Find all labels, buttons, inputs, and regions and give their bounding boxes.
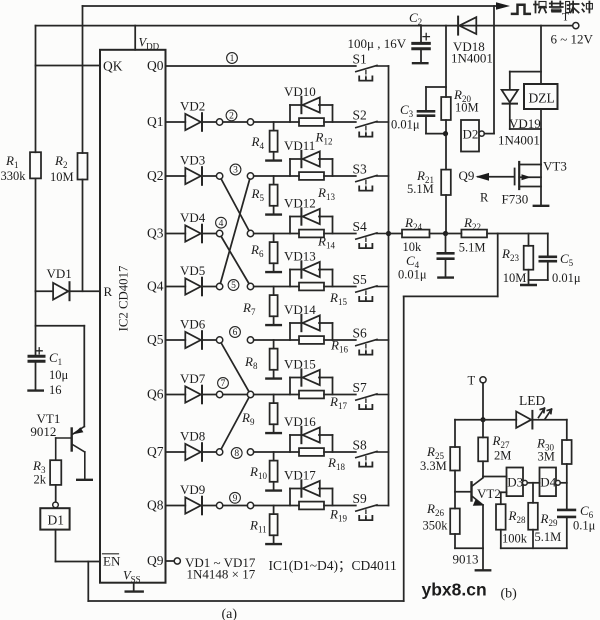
resistor R1: [30, 152, 41, 178]
svg-text:100k: 100k: [502, 532, 528, 546]
wire R25 to base node: [454, 471, 456, 509]
svg-text:Q4: Q4: [147, 279, 164, 294]
diode VD19: [510, 71, 541, 73]
gate D3 output bubble: [523, 480, 528, 485]
svg-text:VD12: VD12: [284, 195, 316, 210]
resistor R6 (shunt): [273, 234, 275, 243]
svg-text:350k: 350k: [423, 519, 449, 533]
ground under C2: [413, 62, 427, 64]
diode VD5: [185, 278, 201, 294]
svg-text:3.3M: 3.3M: [420, 459, 447, 473]
svg-text:R: R: [104, 284, 113, 299]
resistor R9 (shunt): [273, 395, 275, 404]
wire emitter down: [482, 505, 484, 570]
svg-text:Q5: Q5: [147, 332, 164, 347]
wire c2 row2 to network: [254, 175, 299, 177]
resistor R4 (shunt): [273, 122, 275, 131]
node 3 circled: [230, 164, 241, 175]
svg-text:DZL: DZL: [529, 91, 555, 106]
svg-text:100μ , 16V: 100μ , 16V: [348, 36, 407, 51]
svg-text:(b): (b): [501, 587, 518, 602]
switch S8: [356, 451, 377, 457]
wire R1 bottom to C1: [35, 291, 37, 355]
wire DZL to drain: [540, 109, 542, 165]
svg-text:Q1: Q1: [147, 114, 164, 129]
capacitor C1: [29, 355, 44, 358]
wire R26 bottom: [454, 534, 456, 548]
svg-text:0.1μ: 0.1μ: [573, 519, 596, 533]
svg-text:330k: 330k: [1, 169, 27, 183]
switch S6: [356, 339, 377, 345]
svg-text:S7: S7: [353, 380, 368, 395]
node 9 circled: [230, 492, 241, 503]
wire Q3 pin to VD4: [166, 233, 186, 235]
svg-text:S9: S9: [353, 491, 368, 506]
svg-text:Q0: Q0: [147, 58, 164, 73]
diode VD4: [185, 225, 201, 241]
mosfet VT3: [518, 162, 520, 189]
Q9 pin circle: [174, 558, 180, 564]
patch contact c2 row5: [247, 337, 253, 343]
diode VD6: [185, 332, 201, 348]
svg-text:D4: D4: [540, 475, 556, 490]
wire EN bottom rail: [87, 562, 89, 602]
svg-text:S8: S8: [353, 438, 368, 453]
svg-text:3M: 3M: [538, 450, 555, 464]
svg-text:T: T: [562, 12, 569, 24]
svg-text:VD2: VD2: [180, 99, 205, 114]
wire QK line: [36, 65, 101, 67]
svg-text:S1: S1: [353, 52, 367, 67]
wire c2 row1 to network: [254, 121, 299, 123]
pin VDD wire: [134, 26, 136, 50]
wire to S8: [324, 451, 356, 453]
svg-text:VD10: VD10: [284, 84, 316, 99]
svg-text:10M: 10M: [50, 170, 74, 184]
wire diagonal c1-5 to c2-3: [220, 179, 249, 283]
node 7 circled: [218, 378, 229, 389]
resistor R16 (series): [299, 336, 324, 344]
wire to S7: [324, 394, 356, 396]
wire VD8 to patch circle: [202, 451, 216, 453]
svg-text:F730: F730: [502, 192, 529, 207]
capacitor C6: [558, 509, 575, 512]
svg-text:D2: D2: [463, 127, 479, 142]
junction bus-R24 dot: [386, 231, 391, 236]
wire D4 output: [560, 482, 567, 484]
svg-text:Q2: Q2: [147, 168, 164, 183]
resistor R7 (shunt): [273, 287, 275, 296]
svg-text:D3: D3: [507, 475, 523, 490]
switch S9: [356, 505, 377, 511]
wire D1 to EN: [55, 530, 57, 562]
svg-text:2: 2: [229, 112, 234, 122]
svg-text:1N4001: 1N4001: [451, 51, 493, 66]
resistor R22: [446, 233, 462, 235]
svg-text:10M: 10M: [455, 101, 479, 115]
terminal T circle: [573, 23, 579, 29]
wire VD3 to patch circle: [202, 175, 216, 177]
resistor R27: [478, 437, 488, 461]
wire VD5 to patch circle: [202, 286, 216, 288]
ground under R11: [273, 535, 275, 544]
gate D4 box: [540, 468, 557, 497]
gate D3 box: [507, 468, 524, 497]
resistor R26: [450, 509, 460, 535]
svg-text:Q8: Q8: [147, 498, 164, 513]
svg-text:VD19: VD19: [509, 116, 541, 131]
svg-text:IC1(D1~D4)；CD4011: IC1(D1~D4)；CD4011: [269, 558, 397, 574]
wire R22 to R23/C5: [498, 233, 548, 235]
resistor R29: [528, 503, 538, 530]
wire b top rail: [455, 419, 516, 421]
wire supply line B: [36, 25, 573, 27]
wire to S6: [324, 339, 356, 341]
wire link row1 (2): [223, 121, 248, 123]
svg-text:Q9: Q9: [147, 553, 164, 568]
wire alarm-pulse line A: [83, 5, 503, 7]
resistor R19 (series): [299, 502, 324, 510]
resistor R24: [389, 233, 403, 235]
wire supply to R20: [445, 26, 447, 97]
diode VD13 (parallel): [289, 270, 291, 287]
resistor R10 (shunt): [273, 452, 275, 461]
wire to S9: [324, 505, 356, 507]
patch contact c2 row3: [247, 230, 253, 236]
ground under R4: [273, 152, 275, 161]
patch contact c1 row2: [216, 173, 222, 179]
svg-text:S2: S2: [353, 108, 367, 123]
svg-text:7: 7: [221, 379, 226, 389]
diode VD11 (parallel): [289, 159, 291, 176]
wire c2 row7 to network: [254, 451, 299, 453]
diode VD18: [457, 17, 459, 35]
svg-text:VD7: VD7: [180, 371, 206, 386]
wire Q6 pin to VD7: [166, 394, 186, 396]
wire diagonal c1-3 to c2-4: [221, 179, 249, 231]
wire link row8 (9): [223, 505, 248, 507]
diode VD14 (parallel): [289, 323, 291, 340]
svg-text:Q3: Q3: [147, 226, 164, 241]
svg-text:5: 5: [231, 281, 236, 291]
patch contact c1 row1: [216, 119, 222, 125]
svg-text:10μ: 10μ: [49, 368, 69, 382]
svg-text:S3: S3: [353, 162, 368, 177]
wire diagonal c1-8 to c2-7: [221, 398, 249, 450]
wire VD4 to patch circle: [202, 233, 216, 235]
svg-text:3: 3: [233, 166, 238, 176]
gate D4 output bubble: [556, 480, 561, 485]
gate D2 box: [461, 120, 479, 152]
svg-text:5.1M: 5.1M: [459, 241, 486, 255]
wire R27 branch: [482, 420, 484, 438]
resistor R11 (shunt): [273, 506, 275, 515]
svg-text:4: 4: [219, 219, 224, 229]
svg-text:10k: 10k: [403, 240, 423, 254]
diode VD3: [185, 168, 201, 184]
capacitor C3: [426, 86, 446, 88]
diode VD7: [185, 386, 201, 402]
ground under C1: [29, 389, 43, 391]
svg-text:VD5: VD5: [180, 263, 205, 278]
IC U-IC2 CD4017 box: [100, 50, 166, 583]
ground under R8: [273, 370, 275, 379]
svg-text:1N4148 × 17: 1N4148 × 17: [187, 567, 256, 582]
switch S4: [356, 233, 377, 239]
svg-text:5.1M: 5.1M: [407, 182, 434, 196]
ground under R7: [273, 316, 275, 325]
wire to S3: [324, 175, 356, 177]
switch S5: [356, 286, 377, 292]
wire to S5: [324, 286, 356, 288]
wire Q9 pin: [166, 560, 175, 562]
patch contact c2 row4: [247, 283, 253, 289]
svg-text:16: 16: [49, 383, 62, 397]
svg-text:VT3: VT3: [543, 159, 567, 174]
wire gate from Q9: [478, 176, 515, 178]
svg-text:VD1: VD1: [47, 266, 72, 281]
resistor R3: [50, 460, 61, 485]
wire b bottom rail: [500, 530, 502, 549]
wire Q0 to S1: [166, 65, 356, 67]
diode VD8: [185, 444, 201, 460]
svg-text:VD3: VD3: [180, 153, 205, 168]
junction node D2-input dot: [443, 131, 448, 136]
svg-text:R: R: [480, 191, 489, 205]
svg-text:T: T: [468, 374, 476, 388]
svg-text:LED: LED: [519, 393, 545, 408]
node 8 circled: [231, 448, 242, 459]
wire T down: [482, 383, 484, 420]
patch contact c1 row7: [216, 449, 222, 455]
diode VD2: [185, 114, 201, 130]
capacitor C2: [420, 26, 422, 42]
svg-text:VD15: VD15: [284, 356, 316, 371]
wire base: [455, 491, 472, 493]
wire R30 to D4 out to C6: [566, 464, 568, 509]
terminal T2 circle: [480, 377, 486, 383]
svg-text:S5: S5: [353, 272, 368, 287]
wire R21 to node2: [445, 195, 447, 234]
node 4 circled: [216, 217, 227, 228]
svg-text:Q6: Q6: [147, 387, 164, 402]
patch contact c1 row3: [216, 230, 222, 236]
patch contact c2 row1: [247, 119, 253, 125]
ground under R10: [273, 482, 275, 491]
wire R29 branch: [532, 483, 534, 503]
patch contact c1 row8: [216, 502, 222, 508]
gate D2 output bubble: [479, 131, 484, 136]
resistor R8 (shunt): [273, 340, 275, 349]
patch contact c1 row4: [216, 283, 222, 289]
resistor R12 (series): [299, 118, 324, 126]
svg-text:VD8: VD8: [180, 429, 205, 444]
svg-text:1N4001: 1N4001: [498, 133, 540, 148]
resistor R5 (shunt): [273, 176, 275, 185]
switch S1: [356, 65, 377, 71]
wire c2 row3 to network: [254, 233, 299, 235]
svg-text:S6: S6: [353, 326, 368, 341]
svg-text:(a): (a): [222, 607, 238, 620]
svg-text:9013: 9013: [453, 552, 479, 567]
patch contact c2 row8: [247, 502, 253, 508]
wire R3 to D1: [55, 485, 57, 502]
node 2 circled: [226, 110, 237, 121]
diode VD16 (parallel): [289, 435, 291, 452]
detector D1 input circle: [53, 502, 59, 508]
resistor R23: [528, 234, 530, 246]
patch contact c2 row7: [247, 449, 253, 455]
junction b-top dot: [480, 417, 485, 422]
pulse waveform symbol: [512, 5, 530, 14]
resistor R21: [441, 170, 451, 195]
wire VD7 to patch circle: [202, 394, 216, 396]
ground under R6: [273, 263, 275, 272]
wire c2 row5 to network: [254, 339, 299, 341]
switch S7: [356, 394, 377, 400]
resistor R25: [450, 447, 460, 471]
node 1 circled: [227, 53, 238, 64]
wire Q5 pin to VD6: [166, 339, 186, 341]
wire D2 output: [484, 133, 494, 135]
svg-text:0.01μ: 0.01μ: [391, 118, 420, 132]
node 6 circled: [230, 327, 241, 338]
diode VD12 (parallel): [289, 217, 291, 234]
svg-text:1: 1: [230, 54, 235, 64]
ground VSS: [133, 583, 135, 591]
svg-text:0.01μ: 0.01μ: [398, 268, 427, 282]
resistor R2: [78, 153, 88, 180]
svg-text:QK: QK: [103, 59, 123, 74]
svg-text:8: 8: [234, 449, 239, 459]
gate D3 lower input: [501, 491, 507, 493]
ground under R5: [273, 206, 275, 215]
svg-text:D1: D1: [48, 513, 65, 528]
svg-text:IC2 CD4017: IC2 CD4017: [117, 265, 131, 331]
diode VD1: [36, 290, 53, 292]
resistor R18 (series): [299, 448, 324, 456]
wire R25 branch: [454, 420, 456, 447]
svg-text:9012: 9012: [30, 424, 56, 439]
ground under C4: [438, 276, 452, 278]
wire VD9 to patch circle: [202, 505, 216, 507]
wire switch bus: [388, 66, 390, 506]
ground under R9: [273, 424, 275, 433]
detector D1 box: [40, 508, 69, 529]
wire D3 to D4: [527, 482, 539, 484]
patch contact c2 row2: [247, 173, 253, 179]
wire Q1 pin to VD2: [166, 121, 186, 123]
wire Q4 pin to VD5: [166, 286, 186, 288]
svg-text:10M: 10M: [503, 271, 527, 285]
wire c2 row8 to network: [254, 505, 299, 507]
svg-text:Q7: Q7: [147, 444, 164, 459]
svg-text:VD6: VD6: [180, 317, 206, 332]
resistor R14 (series): [299, 230, 324, 238]
wire Q8 pin to VD9: [166, 505, 186, 507]
wire link row6 (7): [223, 394, 248, 396]
wire C1 top branch: [36, 325, 85, 327]
svg-text:0.01μ: 0.01μ: [552, 271, 581, 285]
svg-text:VT2: VT2: [477, 486, 501, 501]
transistor VT2: [470, 482, 472, 500]
alarm pulse arrowhead: [496, 2, 510, 10]
resistor R20: [441, 97, 451, 120]
svg-text:5.1M: 5.1M: [535, 530, 562, 544]
diode VD17 (parallel): [289, 489, 291, 506]
svg-text:VD9: VD9: [180, 482, 205, 497]
svg-text:6: 6: [233, 328, 238, 338]
patch contact c1 row6: [216, 391, 222, 397]
svg-text:ybx8.cn: ybx8.cn: [422, 580, 487, 600]
svg-text:VD13: VD13: [284, 248, 316, 263]
wire node to R21: [445, 134, 447, 170]
svg-text:9: 9: [233, 494, 238, 504]
resistor R13 (series): [299, 172, 324, 180]
diode VD10 (parallel): [289, 105, 291, 122]
capacitor C4: [445, 234, 447, 252]
patch contact c1 row5: [216, 337, 222, 343]
svg-text:VD14: VD14: [284, 302, 316, 317]
transistor VT1: [70, 429, 72, 451]
wire supply to DZL: [540, 26, 542, 84]
resistor R15 (series): [299, 283, 324, 291]
node 5 circled: [228, 280, 239, 291]
svg-text:EN: EN: [103, 554, 121, 569]
wire diagonal c1-4 to c2-5: [221, 237, 249, 284]
wire VD6 to patch circle: [202, 339, 216, 341]
resistor R30: [562, 440, 572, 464]
diode VD9: [185, 497, 201, 513]
svg-text:2k: 2k: [34, 473, 47, 487]
svg-text:VD4: VD4: [180, 210, 206, 225]
ground under VT1 collector: [77, 479, 92, 481]
junction node R21-R22 dot: [443, 231, 448, 236]
wire R20 bottom to node: [445, 120, 447, 134]
diode VD15 (parallel): [289, 378, 291, 395]
wire c2 row6 to network: [254, 394, 299, 396]
svg-text:6 ~ 12V: 6 ~ 12V: [551, 32, 594, 47]
capacitor C5: [547, 234, 549, 256]
switch S2: [356, 121, 377, 127]
wire collector node: [482, 461, 484, 476]
wire Q7 pin to VD8: [166, 451, 186, 453]
svg-text:2M: 2M: [494, 449, 511, 463]
resistor R28: [496, 504, 506, 530]
svg-text:S4: S4: [353, 219, 368, 234]
patch contact c2 row6: [247, 391, 253, 397]
wire to S4: [324, 233, 356, 235]
switch S3: [356, 175, 377, 181]
ground under VT3: [534, 205, 548, 207]
wire to S2: [324, 121, 356, 123]
buzzer DZL box: [524, 84, 558, 109]
ground under R23/C5: [521, 284, 536, 286]
svg-text:Q9: Q9: [459, 168, 475, 183]
LED D-LED: [516, 412, 531, 428]
resistor R17 (series): [299, 391, 324, 399]
svg-text:VD16: VD16: [284, 414, 316, 429]
svg-text:VD11: VD11: [284, 138, 315, 153]
label 报警脉冲 (alarm pulse): [534, 2, 546, 13]
LED arrows: [539, 408, 545, 417]
svg-text:VD17: VD17: [284, 467, 316, 482]
wire R30 branch: [566, 420, 568, 440]
ground under VT2: [476, 569, 490, 571]
wire c2 row4 to network: [254, 286, 299, 288]
wire Q2 pin to VD3: [166, 175, 186, 177]
wire diagonal c1-6 to c2-7: [221, 343, 249, 392]
